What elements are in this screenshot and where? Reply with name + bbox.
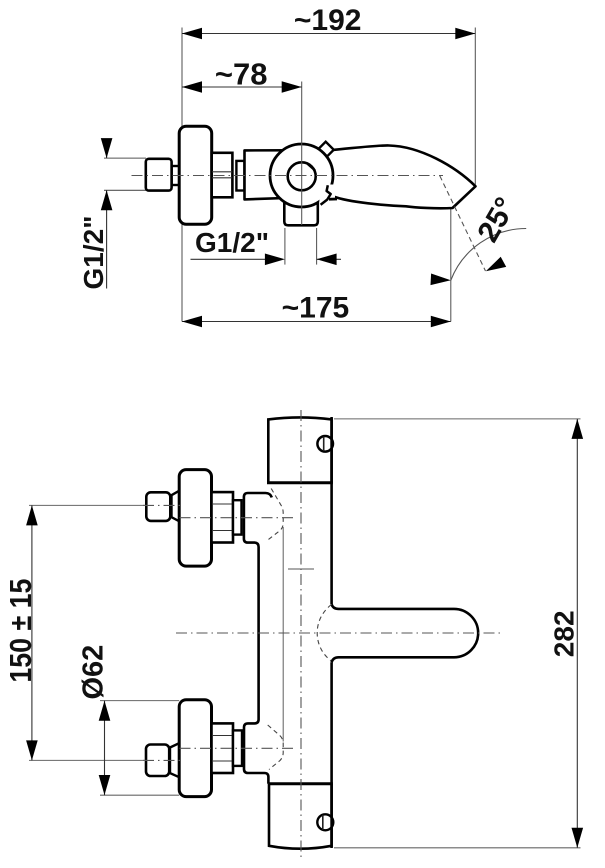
svg-text:150 ± 15: 150 ± 15: [4, 579, 38, 683]
svg-text:~78: ~78: [215, 57, 268, 92]
svg-text:G1/2": G1/2": [78, 216, 109, 290]
svg-text:G1/2": G1/2": [195, 227, 269, 258]
svg-text:282: 282: [548, 610, 579, 657]
svg-text:~175: ~175: [282, 292, 350, 325]
svg-text:~192: ~192: [294, 4, 362, 37]
svg-text:Ø62: Ø62: [78, 645, 110, 700]
